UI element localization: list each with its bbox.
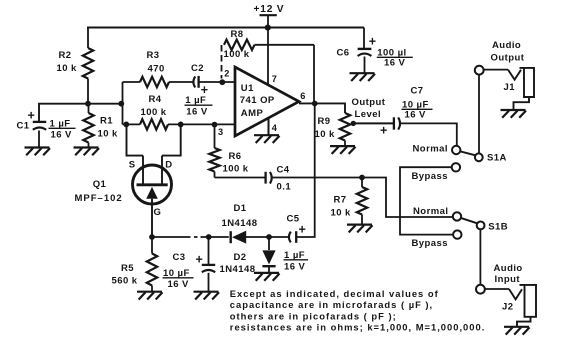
ground op-amp pin 4	[254, 135, 280, 143]
switch S1A pivot	[475, 153, 483, 161]
wire R4 left lead	[123, 123, 141, 125]
R9 wiper	[351, 121, 356, 126]
capacitor C6 plate	[358, 48, 372, 50]
fraction bar C3	[163, 277, 194, 279]
wire gate lead down	[151, 199, 153, 237]
wire +12V lead	[267, 15, 269, 27]
fraction bar C2	[185, 104, 213, 106]
wire C1 bottom lead	[38, 131, 40, 148]
ground under R7	[347, 225, 373, 233]
svg-text:C7: C7	[411, 86, 424, 97]
ground under J1	[501, 110, 527, 118]
wire R5 bottom lead	[151, 286, 153, 292]
svg-text:R1: R1	[100, 116, 113, 127]
svg-text:S1B: S1B	[488, 222, 508, 233]
diode D1	[232, 231, 246, 244]
fraction bar C7	[402, 108, 433, 110]
resistor R8	[224, 40, 255, 50]
wire C7 to S1A normal	[399, 123, 457, 145]
switch S1B blade	[462, 218, 478, 223]
svg-text:R7: R7	[334, 195, 347, 206]
wire R7 bottom lead	[361, 215, 363, 225]
diode D1 cathode bar	[229, 231, 231, 243]
capacitor C5 plate	[295, 231, 297, 243]
svg-text:16 V: 16 V	[384, 57, 406, 68]
capacitor C3 plate	[202, 264, 215, 266]
wire R8 down to output node	[313, 45, 315, 104]
capacitor C2 plate	[197, 76, 199, 88]
svg-text:C3: C3	[173, 252, 186, 263]
svg-text:R8: R8	[231, 29, 244, 40]
wire source up to R4	[127, 124, 144, 155]
fraction bar C1	[49, 127, 76, 129]
node R1/R2 junction	[85, 101, 91, 107]
svg-text:Normal: Normal	[413, 144, 448, 155]
svg-text:1N4148: 1N4148	[222, 218, 258, 229]
capacitor C4 plate	[264, 172, 266, 184]
capacitor C1 curved plate	[33, 128, 46, 130]
wire R6 top lead	[214, 125, 216, 148]
svg-text:Bypass: Bypass	[412, 171, 449, 182]
ground under R9	[330, 146, 356, 154]
node R6 top junction	[212, 122, 218, 128]
capacitor C6 curved plate	[358, 54, 372, 56]
wire C6 top lead	[363, 28, 365, 49]
wire R2 top lead	[87, 28, 89, 49]
jack J2 tip terminal	[476, 285, 485, 294]
ground under C6	[350, 73, 376, 81]
capacitor C7 curved plate	[398, 117, 400, 129]
jack J2 plug tip	[509, 289, 522, 299]
svg-text:Audio: Audio	[492, 40, 521, 51]
wire Q1 drain lead	[161, 156, 163, 184]
resistor R6	[209, 148, 219, 172]
svg-text:470: 470	[148, 64, 165, 75]
svg-text:capacitance are in microfarads: capacitance are in microfarads ( µF ),	[230, 299, 433, 310]
wire J2 sleeve to ground	[517, 317, 531, 327]
wire to J1 plug	[484, 69, 508, 71]
wire R1 top lead	[88, 104, 90, 113]
svg-text:10 k: 10 k	[331, 208, 352, 219]
wire C3 bottom lead	[208, 273, 210, 292]
svg-text:S1A: S1A	[487, 153, 507, 164]
wire pin 4 to ground	[268, 119, 270, 135]
wire R4 to pin 3	[168, 123, 235, 125]
resistor R5	[147, 254, 157, 286]
node tee to R3/R4	[118, 101, 124, 107]
svg-text:resistances are in ohms; k=1,0: resistances are in ohms; k=1,000, M=1,00…	[230, 322, 486, 333]
svg-text:+12 V: +12 V	[254, 4, 285, 15]
svg-text:+: +	[369, 34, 377, 48]
jack J1 tip terminal	[475, 66, 484, 75]
transistor Q1 MPF-102	[133, 165, 172, 204]
wire S1B to J2	[479, 229, 481, 284]
svg-text:+: +	[380, 124, 388, 138]
wire to D1	[201, 236, 229, 238]
capacitor C7 plate	[393, 117, 395, 129]
svg-text:D: D	[165, 159, 172, 170]
wire wiper to C7	[352, 122, 393, 124]
wire bypass link	[400, 167, 453, 234]
wire R8 left vertical	[221, 45, 223, 79]
diode D2 cathode bar	[262, 265, 275, 267]
wire J1 to S1A	[478, 75, 480, 154]
svg-text:U1: U1	[241, 83, 254, 94]
wire pin 7 supply	[267, 28, 269, 86]
jack J1 body	[520, 68, 535, 97]
wire R3/R4 left vertical	[122, 82, 124, 124]
capacitor C4 curved plate	[270, 172, 272, 184]
svg-text:10 k: 10 k	[57, 63, 78, 74]
svg-text:others are in picofarads ( pF: others are in picofarads ( pF );	[230, 310, 397, 321]
jack J2 body	[520, 285, 537, 317]
wire R6 bottom lead	[214, 172, 216, 178]
svg-text:C2: C2	[191, 63, 204, 74]
contact S1B bypass	[453, 230, 461, 238]
Q1 gate arrow	[146, 187, 158, 199]
Q1 channel bar	[137, 183, 168, 186]
svg-text:+: +	[299, 223, 307, 237]
svg-text:D1: D1	[234, 203, 247, 214]
contact S1A bypass	[452, 163, 460, 171]
svg-text:Bypass: Bypass	[412, 238, 449, 249]
power terminal bar	[260, 14, 277, 16]
wire C3 top lead	[208, 237, 210, 265]
resistor R4	[140, 119, 168, 129]
resistor R3	[140, 77, 169, 87]
svg-text:100 k: 100 k	[223, 163, 249, 174]
wire R9 bottom lead	[344, 141, 346, 146]
wire C6 bottom lead	[364, 57, 366, 73]
svg-text:1N4148: 1N4148	[220, 264, 256, 275]
svg-text:S: S	[129, 159, 136, 170]
svg-text:C4: C4	[277, 164, 290, 175]
resistor R1	[83, 113, 93, 143]
ground under J2	[504, 327, 530, 335]
capacitor C3 curved plate	[202, 270, 215, 272]
node R7 junction	[359, 175, 365, 181]
ground under C3	[194, 292, 220, 300]
svg-text:Q1: Q1	[93, 179, 107, 190]
fraction bar C6	[377, 56, 413, 58]
wire J1 sleeve to ground	[514, 97, 530, 110]
svg-text:3: 3	[218, 127, 224, 137]
capacitor C5 curved plate	[289, 232, 291, 243]
svg-text:741 OP: 741 OP	[240, 95, 275, 106]
ground under R1	[74, 148, 100, 156]
switch S1B pivot	[477, 222, 485, 230]
op-amp U1 741	[235, 67, 299, 136]
svg-text:Input: Input	[495, 274, 521, 285]
wire C2 to pin 2	[200, 81, 236, 83]
jack J1 plug tip	[508, 70, 521, 80]
svg-text:4: 4	[272, 123, 278, 133]
ground under R5	[137, 292, 163, 300]
capacitor C2 curved plate	[193, 76, 195, 87]
svg-text:Normal: Normal	[413, 206, 448, 217]
wire R5 top lead	[151, 237, 153, 254]
svg-text:R5: R5	[121, 263, 134, 274]
node R4/drain junction	[178, 122, 184, 128]
svg-text:16 V: 16 V	[186, 107, 208, 118]
wire Q1 source lead	[142, 156, 144, 184]
node +12V rail junction	[265, 25, 271, 31]
wire R3 left lead	[123, 81, 141, 83]
svg-text:10 k: 10 k	[98, 129, 119, 140]
svg-text:16 V: 16 V	[51, 130, 73, 141]
wire C5 up to output node	[297, 104, 315, 238]
ground under C1	[25, 148, 51, 156]
svg-text:16 V: 16 V	[405, 109, 427, 120]
ground under D2	[254, 273, 280, 281]
wire R3 to C2	[169, 81, 193, 83]
wire gate to C3	[152, 236, 191, 238]
svg-text:16 V: 16 V	[168, 279, 190, 290]
svg-text:R4: R4	[149, 94, 162, 105]
svg-text:10 k: 10 k	[315, 129, 336, 140]
wire R8 right	[255, 44, 315, 46]
wire top supply rail	[87, 27, 364, 29]
svg-text:Output: Output	[352, 97, 386, 108]
svg-text:R6: R6	[229, 151, 242, 162]
svg-text:AMP: AMP	[241, 108, 264, 119]
svg-text:0.1: 0.1	[277, 181, 292, 192]
wire R6 to C4	[215, 177, 265, 179]
svg-text:J2: J2	[502, 302, 513, 313]
svg-text:Audio: Audio	[494, 263, 523, 274]
wire D2 top lead	[268, 237, 270, 250]
svg-text:+: +	[196, 253, 204, 267]
potentiometer R9	[340, 113, 350, 141]
wire to J2 plug	[485, 288, 509, 290]
svg-text:R9: R9	[318, 116, 331, 127]
wire C4 to S1B normal	[271, 178, 453, 218]
wire R2 bottom lead	[87, 79, 89, 105]
node output junction	[312, 101, 318, 107]
svg-text:+: +	[28, 109, 36, 123]
wire R7 top lead	[361, 178, 363, 188]
wire dash segment	[194, 236, 198, 238]
wire D1 to C5	[246, 236, 288, 238]
svg-text:16 V: 16 V	[284, 262, 306, 273]
node gate junction	[149, 234, 155, 240]
wire pin 6 to R9	[299, 103, 345, 113]
node R4/source junction	[123, 122, 129, 128]
svg-text:Output: Output	[491, 53, 525, 64]
svg-text:100 k: 100 k	[224, 49, 250, 60]
wire C1 to input node	[39, 104, 123, 122]
node C3 junction	[206, 234, 212, 240]
svg-text:J1: J1	[504, 82, 516, 93]
node pin2/C2/R8 junction	[219, 79, 225, 85]
svg-text:560 k: 560 k	[112, 275, 138, 286]
svg-text:6: 6	[300, 91, 306, 101]
svg-text:2: 2	[224, 69, 230, 79]
svg-text:MPF–102: MPF–102	[75, 193, 123, 204]
diode D2	[262, 250, 275, 264]
svg-text:D2: D2	[234, 252, 247, 263]
resistor R2	[83, 48, 93, 79]
svg-text:Except as indicated, decimal v: Except as indicated, decimal values of	[230, 288, 439, 299]
capacitor C1 plate	[33, 121, 46, 123]
contact S1B normal	[453, 212, 461, 220]
fraction bar C5	[284, 259, 309, 261]
svg-text:R2: R2	[59, 50, 72, 61]
svg-text:Level: Level	[355, 109, 382, 120]
svg-text:7: 7	[272, 74, 278, 84]
svg-text:100 k: 100 k	[141, 107, 167, 118]
svg-text:G: G	[154, 207, 162, 218]
node D1/D2/C5 junction	[266, 234, 272, 240]
resistor R7	[357, 187, 367, 215]
contact S1A normal	[452, 146, 460, 154]
svg-text:C6: C6	[337, 48, 350, 59]
wire R1 bottom lead	[88, 143, 90, 148]
switch S1A blade	[460, 151, 475, 155]
svg-text:R3: R3	[147, 50, 160, 61]
wire drain up to R4	[162, 124, 181, 155]
wire D2 bottom lead	[268, 266, 270, 272]
